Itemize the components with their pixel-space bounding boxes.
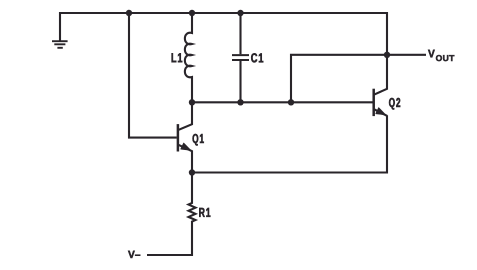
wire top rail (ground rail) — [60, 13, 387, 55]
label Q2 — [389, 98, 400, 110]
wire feedback (mid rail up and over to Vout node) — [291, 55, 387, 103]
transistor Q2 — [374, 55, 387, 116]
wire V- lead — [147, 222, 192, 256]
label C1 — [251, 53, 263, 62]
wire mid rail (tank to Q2 base) — [192, 101, 373, 103]
transistor Q1 — [178, 102, 192, 172]
label VOUT — [428, 50, 454, 61]
capacitor C1 — [232, 13, 249, 102]
inductor L1 — [185, 13, 192, 102]
wire Vout lead — [387, 54, 426, 56]
wire emitter bus (Q2 emitter down and left to Q1 emitter node) — [192, 115, 387, 172]
node E (mid rail / C1) — [237, 99, 243, 105]
label R1 — [199, 208, 210, 217]
node H (emitter bus / R1) — [189, 169, 195, 175]
node A (top rail / Q1 base branch) — [126, 10, 132, 16]
node F (mid rail / feedback branch) — [288, 99, 294, 105]
label L1 — [172, 53, 183, 62]
wire left vertical to Q1 base — [129, 13, 177, 138]
resistor R1 — [189, 173, 196, 223]
label Q1 — [193, 134, 204, 146]
node B (top rail / L1) — [189, 10, 195, 16]
node C (top rail / C1) — [237, 10, 243, 16]
node D (mid rail / L1 / Q1 collector) — [189, 99, 195, 105]
ground — [52, 41, 68, 48]
label V- — [128, 251, 140, 258]
node G (Vout / Q2 collector) — [384, 52, 390, 58]
